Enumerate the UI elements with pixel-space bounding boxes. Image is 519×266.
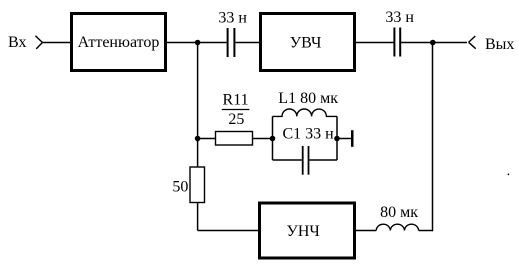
svg-text:С1 33 н: С1 33 н bbox=[283, 126, 335, 143]
svg-text:33 н: 33 н bbox=[218, 9, 247, 26]
svg-text:80 мк: 80 мк bbox=[380, 204, 418, 221]
svg-text:33 н: 33 н bbox=[385, 9, 414, 26]
svg-text:УВЧ: УВЧ bbox=[290, 35, 322, 52]
svg-text:Вых: Вых bbox=[485, 36, 514, 53]
svg-text:Вх: Вх bbox=[8, 34, 26, 51]
svg-text:R11: R11 bbox=[223, 92, 249, 109]
svg-text:50: 50 bbox=[172, 178, 188, 195]
svg-text:L1 80 мк: L1 80 мк bbox=[278, 90, 338, 107]
svg-text:Аттенюатор: Аттенюатор bbox=[78, 34, 160, 51]
svg-text:25: 25 bbox=[228, 111, 244, 128]
svg-text:УНЧ: УНЧ bbox=[287, 223, 320, 240]
